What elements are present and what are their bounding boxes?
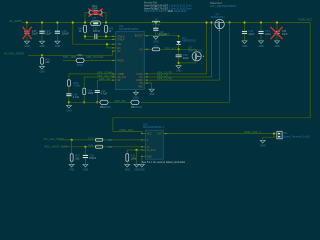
wire stem GND mid [136, 150, 138, 164]
IC U12 pin stubs [142, 134, 167, 157]
IC U12 pin names [147, 134, 163, 159]
wire between beads [108, 101, 130, 103]
svg-text:SWLC031 LT29PCB 10uF 10x11.8mm: SWLC031 LT29PCB 10uF 10x11.8mm [144, 10, 187, 13]
ferrite bead FB3 [100, 100, 111, 109]
svg-text:DMG3415U: DMG3415U [211, 15, 225, 19]
svg-text:GND: GND [55, 45, 61, 48]
svg-text:600R: 600R [136, 105, 142, 109]
diode D4 [176, 35, 197, 49]
ground under C41 [275, 41, 281, 48]
capacitor C40 [258, 23, 271, 41]
svg-text:MAX40200AUK+T: MAX40200AUK+T [143, 125, 165, 129]
svg-text:C1_STU: C1_STU [147, 150, 156, 152]
junction xtal row right [105, 35, 107, 37]
svg-text:GND: GND [40, 70, 46, 73]
svg-text:GND: GND [24, 45, 30, 48]
ground under R50 [40, 66, 46, 73]
svg-text:22uF: 22uF [183, 56, 189, 60]
wire Q3 gate to C35 node [179, 61, 196, 63]
svg-text:10R: 10R [108, 138, 113, 142]
ferrite bead FB2 [63, 53, 116, 67]
junction connector GND branch [273, 133, 275, 135]
svg-text:LDO_M@VQFN16PIN: LDO_M@VQFN16PIN [210, 4, 236, 8]
capacitor C19 [55, 23, 69, 42]
svg-text:PWR_ADC: PWR_ADC [298, 18, 312, 22]
resistor R75 [126, 150, 137, 164]
resistor R64 [83, 88, 94, 102]
svg-text:GND: GND [83, 168, 89, 171]
inductor L2 on rail [152, 17, 160, 27]
svg-text:GND: GND [69, 168, 75, 171]
wire U12 GND pin [142, 156, 146, 164]
wire COMP row to R62 [69, 74, 116, 80]
junction rail C39 [243, 21, 245, 23]
capacitor C39 [242, 23, 255, 41]
ground under C40 [259, 41, 265, 48]
junction rail at L2/C20 [155, 21, 157, 23]
svg-text:PAD: PAD [138, 86, 143, 89]
svg-text:10uF: 10uF [282, 32, 288, 36]
svg-text:10k: 10k [45, 60, 50, 64]
junction rail C17 [26, 21, 28, 23]
svg-text:XTALN: XTALN [117, 35, 125, 38]
transistor Q3 [188, 46, 202, 61]
junction rail C19 [56, 21, 58, 23]
IC U11 right pin names [135, 36, 144, 89]
svg-text:GND: GND [139, 168, 145, 171]
ground mid bottom [134, 164, 140, 171]
capacitor C38 [83, 147, 97, 164]
svg-text:GND: GND [176, 70, 182, 73]
svg-text:100k: 100k [88, 91, 94, 95]
title block text [144, 0, 236, 13]
IC U11 left pin stubs [113, 36, 116, 80]
junction rail v4 [228, 21, 230, 23]
pin end dots [112, 30, 220, 157]
resistor R73 [89, 137, 113, 143]
capacitor C35 [176, 49, 190, 65]
ground under R70 [69, 164, 75, 171]
junction rail v2 [210, 21, 212, 23]
svg-text:SPK_OUTN: SPK_OUTN [157, 77, 172, 81]
svg-text:R74: R74 [89, 143, 94, 147]
junction C32 mid wire [96, 101, 98, 103]
svg-text:R73: R73 [89, 137, 94, 141]
svg-text:VO: VO [139, 49, 143, 51]
IC U12 body [143, 123, 165, 160]
junction row1 R70 [71, 139, 73, 141]
wire v4 rail down to FB return [141, 23, 229, 103]
svg-text:GND: GND [133, 96, 139, 99]
svg-text:GND: GND [66, 109, 72, 112]
ground under C35 [176, 66, 182, 73]
wire stem x72.8 to IC pin IN [73, 23, 116, 45]
junction C34 mid wire [68, 101, 70, 103]
IC U11 right GND pin wire [144, 83, 154, 96]
svg-text:4.7uF: 4.7uF [73, 95, 80, 99]
svg-text:6.04k: 6.04k [73, 83, 80, 87]
svg-text:NC: NC [139, 77, 143, 79]
svg-text:PWR_ADC_J: PWR_ADC_J [244, 130, 262, 134]
IC U11 body [116, 24, 145, 89]
wire BOOST [144, 35, 178, 37]
junction R50 [41, 54, 43, 56]
svg-text:22uF: 22uF [45, 32, 51, 36]
junction crystal right [105, 21, 107, 23]
resistor R48 [78, 25, 87, 36]
svg-text:4.7uF: 4.7uF [101, 92, 108, 96]
svg-text:SPK_PGOOD: SPK_PGOOD [86, 55, 104, 59]
capacitor C31 (series) [85, 26, 116, 39]
svg-text:VIN: VIN [117, 44, 121, 46]
svg-text:XTALP: XTALP [117, 38, 125, 41]
wire connector pin2 to GND [263, 134, 274, 141]
junction rail v1 [205, 21, 207, 23]
junction rail C41 [276, 21, 278, 23]
svg-text:NC: NC [117, 51, 121, 53]
resistor R50 [41, 55, 51, 66]
resistor R51 (DNP) above crystal [85, 4, 106, 22]
svg-text:MAX98357AETE: MAX98357AETE [119, 27, 139, 31]
wire VA_AVDD rail right of Q2 [224, 22, 310, 24]
wire Q3 drain stub [201, 55, 204, 57]
resistor R62 [68, 80, 81, 93]
svg-text:GND: GND [40, 45, 46, 48]
svg-text:R71: R71 [154, 44, 159, 48]
ground under C20 [153, 37, 159, 44]
svg-text:GND: GND [260, 144, 266, 147]
IC U11 left pin names [117, 35, 126, 82]
ground connector [260, 140, 266, 147]
svg-text:GND: GND [153, 41, 159, 44]
wire v1 rail to IC pin [144, 23, 206, 74]
junction rail C40 [260, 21, 262, 23]
svg-text:Screw_Terminal_01x02: Screw_Terminal_01x02 [283, 135, 311, 139]
capacitor C41 (DNP) [274, 23, 288, 41]
svg-text:10uF: 10uF [265, 32, 271, 36]
svg-text:GND: GND [125, 168, 131, 171]
junction D4/C35 [178, 48, 180, 50]
svg-text:GND: GND [259, 45, 265, 48]
wire connector pin2 stub [274, 136, 277, 138]
svg-text:10k: 10k [75, 156, 80, 160]
svg-text:PG: PG [139, 83, 143, 85]
ground under U12 GND [139, 164, 145, 171]
svg-text:600R: 600R [77, 63, 83, 67]
wire Q2 gate down [144, 29, 219, 80]
svg-text:GND: GND [149, 93, 155, 96]
capacitor C17 (DNP) [24, 23, 38, 42]
capacitor C32 [95, 89, 108, 102]
svg-text:VA_AVDD: VA_AVDD [9, 19, 22, 23]
svg-text:600R: 600R [105, 105, 111, 109]
ground under C17 [24, 41, 30, 48]
svg-text:GND: GND [147, 156, 152, 158]
wire VA_AVDD rail left [22, 22, 215, 24]
svg-text:ADC_AVDD_3V3D: ADC_AVDD_3V3D [44, 144, 68, 148]
svg-text:VCC: VCC [147, 134, 152, 136]
svg-text:SD: SD [117, 80, 121, 82]
svg-text:PWR_ADC: PWR_ADC [120, 128, 134, 132]
wire row2 bottom [62, 146, 146, 148]
ground under C19 [55, 41, 61, 48]
svg-text:100nF: 100nF [93, 29, 101, 33]
wire SD row to C32 [97, 80, 115, 90]
svg-text:SPK_FB: SPK_FB [114, 99, 125, 103]
wire U12 pin4 row [127, 149, 145, 151]
capacitor C34 [66, 92, 79, 105]
DNP cross on R51 [89, 9, 103, 16]
svg-text:CA_ADC_DVDD: CA_ADC_DVDD [44, 137, 65, 141]
ground under C39 [242, 41, 248, 48]
junction R64 mid wire [83, 101, 85, 103]
resistor R71 [144, 44, 196, 50]
junction C35 gate [178, 62, 180, 64]
svg-text:PVDD: PVDD [117, 60, 124, 62]
IC U11 bottom ground pin [133, 90, 139, 100]
svg-text:AGND: AGND [136, 79, 143, 82]
svg-text:GND: GND [242, 45, 248, 48]
svg-text:10R: 10R [108, 145, 113, 149]
wire AD_CLK row to R64 [84, 77, 116, 88]
wire row1 bottom [59, 139, 146, 141]
svg-text:LGND: LGND [136, 74, 143, 76]
svg-text:MBR0520LT: MBR0520LT [182, 39, 197, 43]
svg-text:J10: J10 [283, 131, 288, 135]
ground under C18 [40, 41, 46, 48]
IC U11 right pin stubs [144, 36, 147, 83]
wire mid return row [69, 101, 100, 103]
svg-text:OUT: OUT [157, 134, 162, 136]
svg-text:10uF: 10uF [248, 32, 254, 36]
wire XTAL lower row [85, 36, 116, 39]
svg-text:SPK_VDD: SPK_VDD [63, 55, 76, 59]
wire R71 row to Q3 source [196, 49, 198, 51]
svg-text:100nF: 100nF [89, 156, 97, 160]
junction crystal left [84, 21, 86, 23]
transistor Q2 [211, 12, 225, 29]
svg-text:SPK_VCC: SPK_VCC [165, 47, 178, 51]
capacitor C20 [153, 23, 167, 37]
junction rail C18 [41, 21, 43, 23]
connector J10 [277, 131, 311, 139]
junction row2 C38 [84, 146, 86, 148]
wire PWR_ADC down right edge and across bottom [113, 23, 310, 134]
ferrite bead FB1 [131, 100, 142, 109]
wire OUT row to connector [163, 133, 277, 135]
svg-text:See 5.1.1 for reverse battery: See 5.1.1 for reverse battery protection [142, 161, 186, 164]
junction on IN wire [106, 43, 108, 45]
crystal Y2 on rail [91, 21, 101, 26]
resistor R70 [70, 140, 80, 164]
junction xtal row left [84, 35, 86, 37]
junction rail x72.8 [72, 21, 74, 23]
wire VA_ADC_DVDD row [28, 51, 116, 55]
svg-text:DNP: DNP [92, 7, 98, 11]
svg-text:AD_CLK: AD_CLK [117, 76, 126, 79]
svg-text:COMP: COMP [117, 74, 124, 76]
ground under C38 [83, 164, 89, 171]
capacitor C18 [39, 23, 51, 42]
svg-text:EN: EN [117, 48, 121, 50]
svg-text:220nF: 220nF [62, 32, 70, 36]
ground under C34 [66, 105, 72, 112]
ground under R75 [125, 164, 131, 171]
svg-text:BOOST: BOOST [135, 36, 144, 38]
DNP cross on C41 [271, 27, 282, 39]
resistor R49 [105, 25, 114, 36]
resistor R74 [89, 143, 113, 149]
svg-text:VA_ADC_DVDD: VA_ADC_DVDD [4, 52, 24, 56]
DNP cross on C17 [23, 27, 31, 38]
svg-text:22uF: 22uF [32, 32, 38, 36]
svg-text:0R: 0R [93, 16, 96, 20]
svg-text:GND: GND [275, 45, 281, 48]
svg-text:100k: 100k [131, 156, 137, 160]
wire branch to EN pin [107, 44, 116, 48]
junction pin4 row [135, 149, 137, 151]
svg-text:FB2: FB2 [78, 53, 83, 57]
wire v2 rail to IC pin [144, 23, 211, 78]
